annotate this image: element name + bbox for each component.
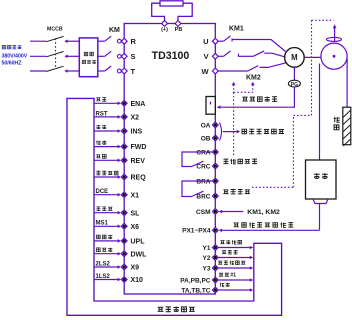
svg-text:DWL: DWL bbox=[131, 251, 148, 258]
svg-text:RST: RST bbox=[96, 111, 108, 117]
svg-text:CRC: CRC bbox=[196, 163, 210, 170]
svg-text:INS: INS bbox=[131, 129, 143, 136]
svg-text:CRA: CRA bbox=[196, 149, 210, 156]
svg-text:380V/400V: 380V/400V bbox=[2, 54, 28, 60]
svg-text:Y2: Y2 bbox=[203, 255, 211, 262]
svg-text:FWD: FWD bbox=[131, 144, 147, 151]
svg-text:W: W bbox=[202, 67, 210, 76]
svg-text:MS1: MS1 bbox=[96, 221, 109, 227]
svg-text:T: T bbox=[131, 67, 136, 76]
svg-text:KM: KM bbox=[109, 27, 120, 34]
svg-text:KM2: KM2 bbox=[246, 75, 261, 82]
svg-text:X9: X9 bbox=[131, 265, 140, 272]
svg-text:MCCB: MCCB bbox=[47, 27, 63, 33]
svg-text:TA,TB,TC: TA,TB,TC bbox=[181, 287, 210, 294]
svg-text:1LS2: 1LS2 bbox=[96, 274, 111, 280]
svg-text:REQ: REQ bbox=[131, 175, 147, 182]
svg-text:SL: SL bbox=[131, 210, 141, 217]
svg-text:CSM: CSM bbox=[196, 209, 210, 216]
svg-text:KM1: KM1 bbox=[229, 26, 244, 33]
svg-text:UPL: UPL bbox=[131, 239, 146, 246]
svg-text:S: S bbox=[131, 52, 136, 61]
svg-text:KM1, KM2: KM1, KM2 bbox=[247, 209, 280, 216]
svg-text:U: U bbox=[203, 37, 208, 46]
svg-text:V: V bbox=[204, 52, 209, 61]
svg-text:R: R bbox=[131, 37, 137, 46]
svg-text:(+): (+) bbox=[161, 27, 168, 33]
svg-text:50/60HZ: 50/60HZ bbox=[2, 61, 23, 67]
svg-text:ENA: ENA bbox=[131, 101, 146, 108]
svg-text:Y1: Y1 bbox=[203, 245, 211, 252]
svg-text:DCE: DCE bbox=[96, 189, 109, 195]
svg-text:OA: OA bbox=[201, 122, 211, 129]
svg-text:2LS2: 2LS2 bbox=[96, 261, 111, 267]
svg-text:Y3: Y3 bbox=[203, 265, 211, 272]
svg-text:BRC: BRC bbox=[196, 193, 210, 200]
svg-text:REV: REV bbox=[131, 158, 146, 165]
svg-text:X10: X10 bbox=[131, 277, 144, 284]
svg-text:PG: PG bbox=[291, 82, 298, 88]
svg-text:PA,PB,PC: PA,PB,PC bbox=[180, 277, 211, 284]
svg-text:X6: X6 bbox=[131, 224, 140, 231]
svg-text:PB: PB bbox=[175, 27, 183, 33]
svg-text:M: M bbox=[291, 53, 298, 62]
svg-text:X2: X2 bbox=[131, 115, 140, 122]
svg-text:BRA: BRA bbox=[196, 178, 210, 185]
svg-text:PX1~PX4: PX1~PX4 bbox=[182, 228, 211, 235]
svg-text:#1: #1 bbox=[230, 273, 236, 279]
svg-text:X1: X1 bbox=[131, 192, 140, 199]
svg-text:OB: OB bbox=[201, 135, 211, 142]
svg-text:TD3100: TD3100 bbox=[152, 50, 190, 62]
